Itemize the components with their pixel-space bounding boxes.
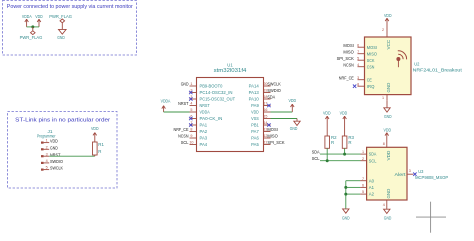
svg-text:NRF_CE: NRF_CE (339, 75, 354, 80)
IC U1 right pin stubs and numbers (263, 82, 270, 145)
label SDA (U1) (267, 95, 276, 100)
no-connect PA9 (267, 104, 270, 107)
wire VSS pin15 (271, 118, 298, 120)
svg-text:1: 1 (46, 139, 48, 143)
junction SDA-R3 (343, 153, 346, 156)
svg-text:CE: CE (367, 77, 372, 82)
svg-text:14: 14 (263, 121, 267, 125)
IC U2 body (365, 37, 412, 95)
svg-text:3: 3 (409, 169, 411, 173)
wire SDA (320, 153, 361, 155)
IC U2 left pin names (367, 45, 378, 89)
svg-text:PA13: PA13 (249, 90, 260, 95)
power VDD (U3) (384, 128, 392, 141)
svg-text:GND: GND (386, 188, 391, 199)
svg-text:8: 8 (383, 142, 385, 146)
no-connect Alert (413, 173, 416, 176)
connector J1 pins (41, 139, 49, 171)
svg-text:SCK: SCK (367, 58, 375, 63)
svg-text:VDD: VDD (340, 111, 348, 116)
power VDDA (U1) (161, 98, 171, 112)
IC U2 value (413, 67, 463, 72)
svg-text:ST-Link pins in no particular: ST-Link pins in no particular order (15, 117, 110, 123)
IC U2 left pin stubs and numbers (357, 43, 364, 86)
svg-text:VDD: VDD (323, 111, 331, 116)
resistor R2 (325, 135, 337, 148)
connector J1 labels (50, 139, 64, 171)
IC U2 pin 2 VCC (382, 27, 391, 50)
junction A1 (344, 186, 347, 189)
svg-text:PWR_FLAG: PWR_FLAG (49, 14, 72, 19)
svg-text:stm32l031f4: stm32l031f4 (214, 68, 247, 74)
svg-text:4: 4 (190, 102, 192, 106)
svg-text:GND: GND (386, 82, 391, 93)
wire A2 (346, 193, 360, 195)
svg-text:2: 2 (46, 145, 48, 149)
svg-text:MOSI: MOSI (343, 43, 353, 48)
label SCL (U1) (181, 140, 189, 145)
svg-text:CSN: CSN (367, 64, 375, 69)
svg-text:PA5: PA5 (251, 142, 259, 147)
svg-text:MOSI: MOSI (267, 127, 277, 132)
svg-text:10: 10 (189, 141, 193, 145)
label NRST (U1) (178, 101, 189, 106)
svg-text:IRQ: IRQ (367, 84, 375, 89)
svg-text:7: 7 (362, 177, 364, 181)
svg-text:MISO: MISO (343, 49, 354, 54)
wire VDDA-VDD (27, 26, 39, 28)
svg-text:PA6: PA6 (251, 136, 259, 141)
svg-text:NCSN: NCSN (178, 134, 188, 139)
svg-text:3: 3 (46, 152, 48, 156)
note text: power supply note (7, 4, 133, 10)
svg-text:PA4: PA4 (200, 142, 208, 147)
svg-text:SWCLK: SWCLK (267, 82, 281, 87)
svg-text:7: 7 (357, 50, 359, 54)
IC U1 right pin names (249, 84, 260, 147)
svg-text:4: 4 (46, 159, 48, 163)
power VDD (U1) (289, 98, 297, 112)
svg-text:Power connected to power suppl: Power connected to power supply via curr… (7, 4, 133, 10)
svg-text:SDA: SDA (312, 149, 321, 154)
svg-text:MISO: MISO (267, 134, 278, 139)
IC U1 left pin stubs and numbers (189, 82, 196, 145)
ground GND (U1) (290, 119, 301, 132)
label NRF_CE (U2) (339, 75, 354, 80)
svg-text:6: 6 (357, 43, 359, 47)
svg-text:4: 4 (357, 63, 359, 67)
svg-text:VDD: VDD (384, 13, 392, 18)
IC U1 reference (227, 63, 233, 69)
svg-text:GND: GND (50, 145, 58, 150)
svg-text:A1: A1 (369, 185, 375, 190)
wire VDDA to pin5 (164, 111, 190, 113)
svg-text:PB1: PB1 (251, 123, 259, 128)
svg-text:VDDA: VDDA (200, 110, 210, 115)
svg-text:SCL: SCL (181, 140, 189, 145)
svg-text:8: 8 (190, 128, 192, 132)
svg-text:MISO: MISO (367, 51, 378, 56)
svg-text:R1: R1 (98, 142, 104, 147)
ground GND (A pins) (342, 209, 350, 221)
label NCSN (U1) (178, 134, 188, 139)
svg-text:Programmer: Programmer (37, 134, 56, 139)
label SCL (U3) (312, 156, 320, 161)
IC U3 pin 4 GND (383, 188, 391, 209)
svg-text:SWDIO: SWDIO (267, 88, 281, 93)
svg-text:SPI_SCK: SPI_SCK (267, 140, 285, 145)
svg-text:R: R (331, 140, 334, 145)
no-connect PB1 (267, 123, 270, 126)
IC U3 pin names SDA SCL (369, 152, 377, 164)
ground GND (U3) (384, 209, 392, 220)
label MISO (U2) (343, 49, 354, 54)
svg-text:VDD: VDD (50, 139, 58, 144)
svg-text:PC14-OSC32_IN: PC14-OSC32_IN (200, 90, 233, 95)
svg-text:SDA: SDA (267, 95, 276, 100)
svg-text:NRST: NRST (178, 101, 189, 106)
svg-text:VDD: VDD (289, 98, 297, 103)
PWR_FLAG right (49, 14, 72, 29)
label SWDIO (267, 88, 281, 93)
wire A1 (346, 186, 360, 188)
svg-text:R: R (98, 149, 101, 154)
svg-text:MCP9808_MSOP: MCP9808_MSOP (415, 175, 448, 180)
svg-text:NCSN: NCSN (343, 62, 353, 67)
svg-text:GND: GND (290, 126, 298, 131)
junction SCL-R2 (326, 159, 329, 162)
no-connect PA1 (189, 123, 192, 126)
note box: power flags (3, 1, 137, 56)
svg-text:GND: GND (384, 114, 392, 119)
no-connect PC14 (189, 91, 192, 94)
svg-text:6: 6 (362, 184, 364, 188)
svg-text:SPI_SCK: SPI_SCK (337, 56, 355, 61)
junction (31, 25, 34, 28)
svg-text:1: 1 (382, 96, 384, 100)
IC U3 value (415, 175, 448, 180)
svg-text:GND: GND (181, 82, 189, 87)
wire R3 to SDA (344, 148, 346, 154)
svg-text:VDD: VDD (91, 126, 99, 131)
label SDA (U3) (312, 149, 321, 154)
resistor R1 (93, 142, 105, 155)
svg-text:PA0-CK_IN: PA0-CK_IN (200, 116, 223, 121)
svg-text:PA7: PA7 (251, 129, 259, 134)
label SPI_SCK (U2) (337, 56, 355, 61)
label MOSI (U2) (343, 43, 353, 48)
svg-text:1: 1 (362, 150, 364, 154)
resistor R3 (342, 135, 354, 148)
svg-text:3: 3 (357, 76, 359, 80)
IC U3 pin 3 Alert (395, 169, 414, 177)
IC U3 reference (418, 169, 424, 174)
svg-text:VDDA: VDDA (22, 14, 32, 19)
IC U1 value (214, 68, 247, 74)
svg-text:9: 9 (190, 134, 192, 138)
svg-text:PA14: PA14 (249, 84, 260, 89)
svg-text:2: 2 (362, 157, 364, 161)
power VDD (R3) (340, 111, 348, 136)
svg-text:U2: U2 (414, 62, 420, 67)
IC U2 reference (414, 62, 420, 67)
svg-text:2: 2 (382, 28, 384, 32)
no-connect PC15 (189, 97, 192, 100)
svg-text:SDA: SDA (369, 152, 377, 157)
wire A0 (346, 180, 360, 182)
svg-text:VSS: VSS (251, 116, 259, 121)
label SWCLK (267, 82, 281, 87)
svg-text:MOSI: MOSI (367, 45, 377, 50)
svg-text:GND: GND (342, 215, 350, 220)
svg-text:SCL: SCL (312, 156, 320, 161)
svg-text:5: 5 (362, 190, 364, 194)
svg-text:PA9: PA9 (251, 103, 259, 108)
svg-text:5: 5 (357, 56, 359, 60)
IC U2 pin 1 GND (382, 82, 391, 101)
wire NRST to R1 (49, 155, 95, 156)
wire SCL (320, 160, 361, 162)
svg-text:Alert: Alert (395, 172, 407, 177)
svg-text:SWDIO: SWDIO (50, 159, 63, 164)
svg-text:4: 4 (383, 203, 385, 207)
no-connect PA0 (189, 117, 192, 120)
PWR_FLAG left (20, 27, 43, 40)
connector J1 ref (37, 129, 56, 139)
svg-text:NRF_CE: NRF_CE (174, 127, 189, 132)
svg-text:GND: GND (384, 215, 392, 220)
IC U1 body (197, 78, 264, 152)
crosshair marker (416, 202, 446, 233)
junction A2 (344, 193, 347, 196)
svg-text:VDD: VDD (35, 14, 43, 19)
IC U3 pin names A0 A1 A2 (369, 178, 375, 196)
label NCSN (U2) (343, 62, 353, 67)
power VDD (box2) (91, 126, 99, 142)
svg-text:PA2: PA2 (200, 129, 208, 134)
svg-text:5: 5 (46, 166, 48, 170)
label MISO (U1) (267, 134, 278, 139)
wire R2 to SCL (326, 148, 328, 160)
svg-text:VDDA: VDDA (161, 98, 171, 103)
power VDDA flag (22, 14, 32, 27)
svg-text:GND: GND (57, 35, 65, 40)
svg-text:SWCLK: SWCLK (50, 166, 64, 171)
svg-text:NRST: NRST (200, 103, 210, 108)
wire VDD pin16 (271, 111, 293, 113)
wire A bus down (345, 181, 347, 209)
svg-text:8: 8 (357, 82, 359, 86)
svg-text:PA1: PA1 (200, 123, 208, 128)
IC U3 pin 8 VDD (383, 141, 391, 161)
svg-text:VDD: VDD (251, 110, 259, 115)
svg-text:VDD: VDD (384, 128, 392, 133)
label NRF_CE (U1) (174, 127, 189, 132)
note box: ST-Link (8, 112, 118, 189)
IC U3 pins A0 A1 A2 stubs (360, 177, 367, 194)
svg-text:PA10: PA10 (249, 97, 260, 102)
power VDD (U2) (384, 13, 392, 26)
svg-text:R: R (348, 140, 351, 145)
svg-text:A2: A2 (369, 192, 375, 197)
label MOSI (U1) (267, 127, 277, 132)
svg-text:U3: U3 (418, 169, 424, 174)
label SPI_SCK (U1) (267, 140, 285, 145)
svg-text:PWR_FLAG: PWR_FLAG (20, 35, 43, 40)
svg-text:5: 5 (190, 108, 192, 112)
svg-text:17: 17 (263, 102, 267, 106)
IC U3 pins SDA SCL stubs (361, 150, 367, 161)
svg-text:PB9-BOOT0: PB9-BOOT0 (200, 84, 223, 89)
power VDD (R2) (323, 111, 331, 136)
note text: ST-Link note (15, 117, 110, 123)
svg-text:VDD: VDD (386, 150, 391, 161)
IC U3 body (367, 147, 407, 200)
ground GND (U2) (384, 101, 392, 119)
svg-text:16: 16 (263, 108, 267, 112)
svg-text:PC15-OSC32_OUT: PC15-OSC32_OUT (200, 97, 236, 102)
svg-text:PA3: PA3 (200, 136, 208, 141)
svg-text:15: 15 (263, 115, 267, 119)
label GND (U1 pin1) (181, 82, 189, 87)
no-connect IRQ (353, 85, 356, 88)
svg-text:SCL: SCL (369, 158, 377, 163)
svg-text:NRF24L01_Breakout: NRF24L01_Breakout (413, 67, 463, 72)
IC U1 left pin names (200, 84, 236, 147)
svg-text:1: 1 (190, 82, 192, 86)
antenna symbol (396, 51, 406, 67)
power VDD flag (35, 14, 43, 27)
svg-text:A0: A0 (369, 178, 375, 183)
svg-text:VCC: VCC (386, 39, 391, 50)
ground GND right (57, 29, 66, 40)
